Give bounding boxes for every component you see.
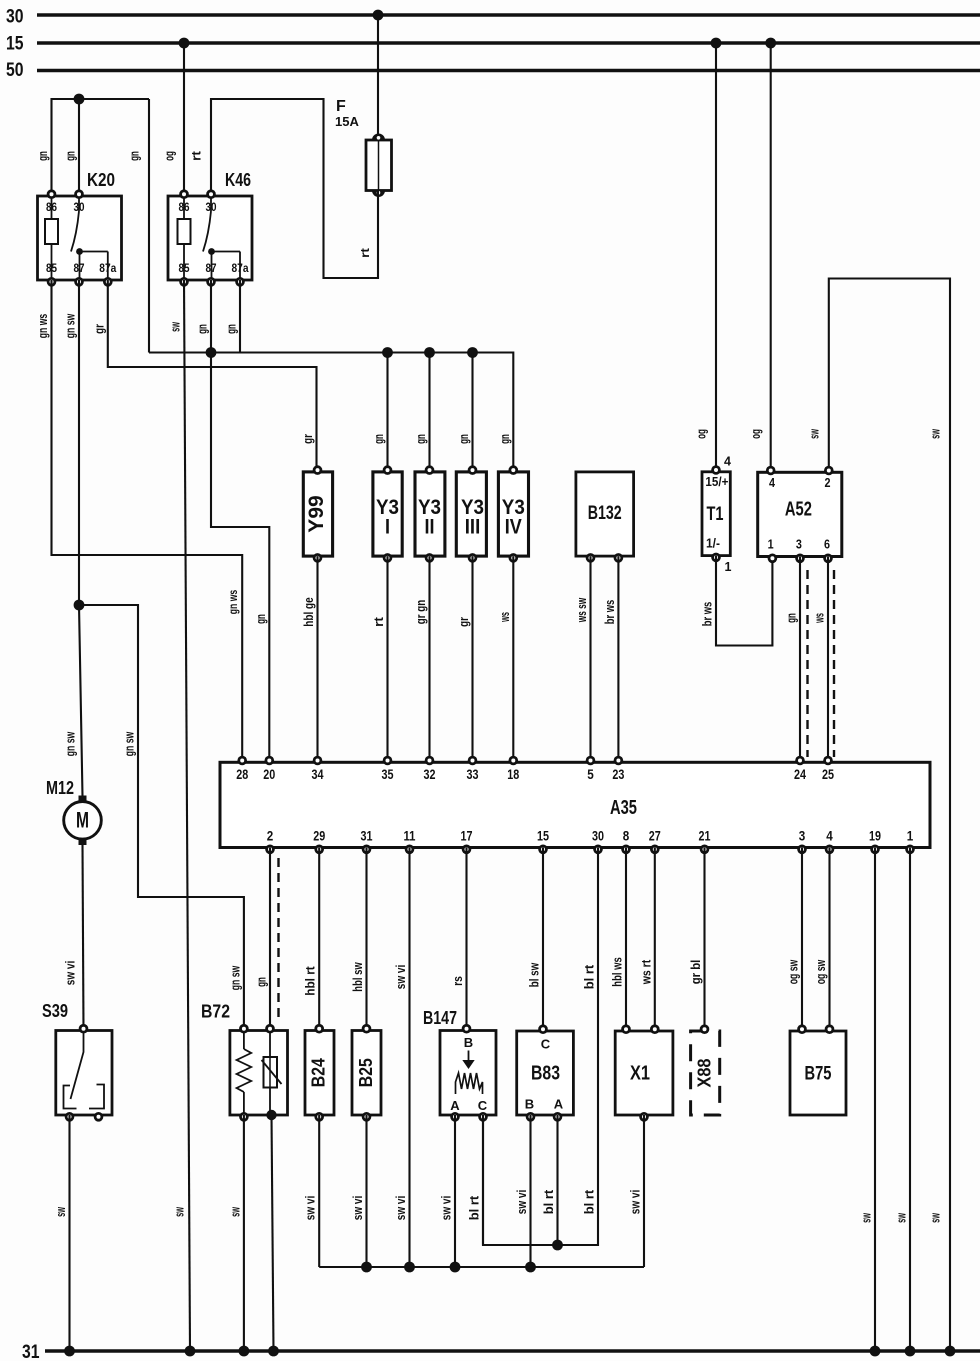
svg-text:ws: ws [497, 612, 512, 622]
wire sw vi M12 to S39 [83, 845, 84, 1031]
wire sw vi B83 B to ground rail [529, 1115, 531, 1267]
svg-text:gn sw: gn sw [227, 965, 242, 990]
junction B25 rail [361, 1262, 372, 1273]
ground rail wire y=1267 [319, 1266, 644, 1268]
sensor B132 [576, 472, 634, 563]
junction bus15 T1 [711, 38, 722, 49]
svg-text:15/+: 15/+ [705, 475, 728, 489]
wire rt from fuse to relay K46 terminal 30 [211, 99, 378, 278]
svg-text:3: 3 [799, 828, 806, 844]
svg-text:rt: rt [360, 248, 372, 258]
A35 bottom pin 2 [265, 828, 275, 855]
svg-text:gn: gn [127, 151, 142, 161]
svg-text:gn: gn [224, 324, 239, 334]
svg-text:gr: gr [91, 324, 106, 334]
svg-text:bl sw: bl sw [527, 962, 542, 987]
wire gn A52 pin3 to A35 pin 24 [799, 557, 801, 763]
svg-text:31: 31 [22, 1342, 40, 1361]
svg-text:1: 1 [725, 560, 732, 574]
connector X88 (dashed) [691, 1024, 720, 1115]
svg-text:23: 23 [612, 766, 624, 782]
A35 bottom pin 31 [361, 828, 373, 855]
valve Y3 III [456, 465, 486, 562]
control unit A35 [220, 762, 930, 847]
wire gn to Y3 III [471, 353, 473, 473]
svg-text:B83: B83 [531, 1063, 560, 1085]
A35 bottom pin 21 [699, 828, 711, 855]
wire gn A35 pin2 to B72 [269, 848, 271, 1031]
svg-text:34: 34 [312, 766, 324, 782]
svg-text:gn sw: gn sw [63, 313, 78, 338]
svg-text:33: 33 [467, 766, 479, 782]
svg-text:15A: 15A [335, 114, 359, 129]
svg-text:21: 21 [699, 828, 711, 844]
junction gn node Y3 II [424, 347, 435, 358]
A35 top pin 25 [822, 756, 834, 782]
svg-text:B132: B132 [588, 503, 622, 524]
junction K46 87 on gn node [206, 347, 217, 358]
svg-text:gn: gn [254, 977, 269, 987]
wire og sw A35 pin4 to B75 [828, 848, 830, 1031]
svg-text:C: C [541, 1037, 551, 1052]
svg-text:gn: gn [413, 434, 428, 444]
wire og bus 15 to T1 pin 4 [715, 43, 717, 472]
junction B72 right bus31 [268, 1346, 279, 1357]
valve Y3 II [415, 465, 445, 562]
svg-text:T1: T1 [707, 504, 724, 525]
svg-text:20: 20 [263, 766, 275, 782]
switch S39 [42, 1001, 112, 1122]
svg-text:B: B [464, 1035, 473, 1050]
svg-text:24: 24 [794, 766, 806, 782]
A35 top pin 5 [586, 756, 596, 782]
sensor B25 [352, 1024, 381, 1122]
svg-text:gn ws: gn ws [35, 314, 50, 339]
wire gn from K46 87 to A35 pin 20 [211, 280, 269, 762]
junction B147 A rail [450, 1262, 461, 1273]
svg-text:2: 2 [267, 828, 274, 844]
svg-text:hbl rt: hbl rt [303, 966, 318, 996]
wire hbl rt A35 pin29 to B24 [318, 848, 320, 1031]
A35 bottom pin 29 [313, 828, 325, 855]
junction sw wire on bus 31 [185, 1346, 196, 1357]
svg-text:sw vi: sw vi [63, 961, 78, 986]
wire sw vi X1 to ground rail [643, 1115, 645, 1267]
wire from bus 30 to fuse F [377, 15, 379, 140]
svg-text:15: 15 [537, 828, 549, 844]
A35 top pin 23 [612, 756, 624, 782]
potentiometer B147 [423, 1008, 496, 1122]
A35 top pin 18 [507, 756, 519, 782]
A35 bottom pin 30 [592, 828, 604, 855]
A35 bottom pin 1 [905, 828, 915, 855]
svg-text:B24: B24 [309, 1058, 329, 1087]
svg-text:gn: gn [195, 324, 210, 334]
svg-text:8: 8 [623, 828, 630, 844]
svg-text:gn sw: gn sw [63, 731, 78, 756]
A35 top pin 32 [424, 756, 436, 782]
svg-text:32: 32 [424, 766, 436, 782]
svg-text:sw vi: sw vi [628, 1190, 643, 1215]
A35 bottom pin 11 [404, 828, 416, 855]
svg-text:ws: ws [812, 613, 827, 623]
junction above K20 [74, 94, 85, 105]
svg-text:sw vi: sw vi [350, 1196, 365, 1221]
svg-text:rt: rt [189, 150, 204, 160]
relay K46 [168, 170, 252, 287]
svg-text:X1: X1 [630, 1063, 650, 1085]
svg-text:6: 6 [824, 538, 830, 552]
svg-text:27: 27 [649, 828, 661, 844]
A35 bottom pin 15 [537, 828, 549, 855]
svg-text:11: 11 [404, 828, 416, 844]
svg-text:gn: gn [497, 434, 512, 444]
svg-text:gr: gr [456, 617, 471, 627]
svg-text:sw: sw [928, 429, 943, 439]
shield dashed line at pin 25 wire [833, 570, 835, 757]
svg-text:B: B [525, 1097, 534, 1112]
svg-text:ws rt: ws rt [638, 959, 653, 985]
A35 bottom pin 19 [869, 828, 881, 855]
junction on bus 15 at og wire [179, 38, 190, 49]
svg-text:28: 28 [236, 766, 248, 782]
svg-text:1: 1 [768, 538, 774, 552]
svg-text:gn: gn [35, 151, 50, 161]
bus 30 (battery +) [6, 7, 980, 28]
A35 top pin 20 [263, 756, 275, 782]
svg-text:bl rt: bl rt [541, 1189, 556, 1214]
wire sw vi A35 pin11 to ground rail [408, 848, 410, 1268]
svg-text:sw: sw [53, 1207, 68, 1217]
A35 bottom pin 8 [621, 828, 631, 855]
wire sw S39 to bus 31 [68, 1115, 70, 1351]
svg-text:II: II [425, 516, 435, 539]
svg-text:S39: S39 [42, 1001, 68, 1021]
valve Y3 I [373, 465, 402, 562]
junction gn node Y3 I [382, 347, 393, 358]
wire ws A52 pin6 to A35 pin 25 [827, 557, 829, 763]
wire br ws B132 to A35 pin 23 [617, 556, 619, 762]
svg-text:gn sw: gn sw [122, 731, 137, 756]
wire gr Y3 III to A35 pin 33 [471, 556, 473, 762]
svg-text:bl rt: bl rt [582, 964, 597, 989]
wire ws sw B132 to A35 pin 5 [589, 556, 591, 762]
wire gr gn Y3 II to A35 pin 32 [428, 556, 430, 762]
svg-text:og sw: og sw [786, 959, 801, 984]
wire rt Y3 I to A35 pin 35 [386, 556, 388, 762]
wire gn from K20 86 to node above [52, 99, 150, 196]
svg-text:ws sw: ws sw [574, 597, 589, 623]
svg-text:og: og [694, 429, 709, 439]
svg-text:4: 4 [724, 455, 731, 469]
svg-text:gn: gn [456, 434, 471, 444]
svg-text:A35: A35 [610, 797, 637, 819]
sensor B83 [517, 1024, 574, 1121]
svg-text:30: 30 [6, 7, 24, 28]
svg-text:25: 25 [822, 766, 834, 782]
svg-text:X88: X88 [695, 1059, 715, 1088]
svg-text:K46: K46 [225, 170, 251, 190]
wire gn node to Y3 valves [149, 353, 513, 473]
wire gn from K46 87a to gn node [239, 280, 241, 353]
svg-text:gr: gr [300, 434, 315, 444]
svg-text:III: III [465, 516, 481, 539]
svg-text:gn: gn [784, 613, 799, 623]
svg-text:og sw: og sw [813, 959, 828, 984]
svg-text:sw vi: sw vi [393, 1196, 408, 1221]
junction B83 B rail [525, 1262, 536, 1273]
svg-text:IV: IV [505, 516, 522, 539]
svg-text:bl rt: bl rt [467, 1195, 482, 1220]
junction on gn sw wire [74, 600, 85, 611]
wire sw vi B25 to ground rail [365, 1115, 367, 1267]
svg-text:hbl ws: hbl ws [610, 957, 625, 986]
wire hbl ge Y99 to A35 pin 34 [316, 556, 318, 762]
svg-text:gr gn: gr gn [413, 600, 428, 625]
wire og from bus 15 to K46 86 [183, 43, 185, 196]
svg-text:sw vi: sw vi [393, 965, 408, 990]
svg-text:og: og [748, 429, 763, 439]
svg-text:29: 29 [313, 828, 325, 844]
wire gn K20 30 [78, 99, 80, 196]
wire sw A35 pin1 to bus 31 [909, 848, 911, 1352]
svg-text:K20: K20 [87, 170, 115, 190]
wire bl rt A35 pin30 to B147 C [483, 848, 598, 1246]
wire bl rt B147 C to pin30 wire [482, 1115, 484, 1245]
svg-text:19: 19 [869, 828, 881, 844]
svg-text:1: 1 [907, 828, 914, 844]
shield dashed line at B72 wire [277, 858, 279, 1017]
A35 bottom pin 27 [649, 828, 661, 855]
wire B72 right to bus 31 [272, 1115, 274, 1351]
wire sw B72 left to bus 31 [243, 1115, 245, 1351]
svg-text:M12: M12 [46, 778, 74, 798]
svg-text:rt: rt [371, 616, 386, 626]
svg-text:4: 4 [769, 476, 775, 490]
svg-text:2: 2 [825, 476, 831, 490]
svg-text:M: M [76, 808, 89, 833]
svg-text:sw vi: sw vi [439, 1196, 454, 1221]
svg-text:Y99: Y99 [305, 495, 328, 532]
svg-text:sw vi: sw vi [303, 1196, 318, 1221]
svg-text:sw: sw [168, 322, 183, 332]
control unit A52 [758, 466, 842, 563]
wire bl sw A35 pin15 to B83 [542, 848, 544, 1031]
wire bl rt B83 A to pin30 wire [556, 1115, 558, 1245]
svg-text:35: 35 [382, 766, 394, 782]
junction S39 bus31 [64, 1346, 75, 1357]
wire ws Y3 IV to A35 pin 18 [512, 556, 514, 762]
bus 50 (starter) [6, 60, 980, 81]
svg-text:hbl sw: hbl sw [350, 962, 365, 992]
svg-text:I: I [385, 516, 390, 539]
wire ws rt A35 pin27 to X1 [654, 848, 656, 1031]
svg-text:br ws: br ws [602, 600, 617, 625]
svg-text:sw: sw [928, 1213, 943, 1223]
sensor B72 [201, 1002, 288, 1122]
junction bus15 A52 [765, 38, 776, 49]
svg-text:5: 5 [587, 766, 594, 782]
wire gn to Y3 II [428, 353, 430, 473]
A35 bottom pin 3 [797, 828, 807, 855]
relay K20 [38, 170, 122, 287]
wire gn ws from K20 85 to A35 pin 28 [52, 280, 243, 762]
svg-text:og: og [162, 151, 177, 161]
A35 top pin 28 [236, 756, 248, 782]
svg-text:sw: sw [859, 1213, 874, 1223]
svg-text:15: 15 [6, 34, 24, 55]
svg-text:C: C [478, 1098, 488, 1113]
bus 15 (ignition) [6, 34, 980, 55]
svg-text:B25: B25 [356, 1058, 376, 1087]
sensor B24 [305, 1024, 334, 1122]
svg-text:sw vi: sw vi [514, 1190, 529, 1215]
svg-text:br ws: br ws [700, 602, 715, 627]
wire gn to Y3 I [386, 353, 388, 473]
svg-text:A52: A52 [785, 499, 812, 521]
junction pin19 bus31 [870, 1346, 881, 1357]
wire sw from K46 85 to bus 31 [184, 280, 190, 1351]
svg-text:50: 50 [6, 60, 24, 81]
svg-text:17: 17 [461, 828, 473, 844]
A35 top pin 33 [467, 756, 479, 782]
svg-text:bl rt: bl rt [582, 1189, 597, 1214]
svg-text:sw: sw [227, 1207, 242, 1217]
svg-text:30: 30 [592, 828, 604, 844]
svg-text:18: 18 [507, 766, 519, 782]
A35 top pin 34 [312, 756, 324, 782]
svg-text:4: 4 [826, 828, 833, 844]
svg-text:rs: rs [450, 976, 465, 986]
junction B72 left bus31 [239, 1346, 250, 1357]
svg-text:F: F [336, 98, 346, 115]
connector X1 [615, 1024, 673, 1121]
junction pin11 rail [404, 1262, 415, 1273]
svg-text:1/-: 1/- [706, 537, 720, 551]
wire gn sw branch to B72 left [79, 605, 244, 1031]
A35 top pin 35 [382, 756, 394, 782]
junction on bus 30 [373, 10, 384, 21]
wire hbl sw A35 pin31 to B25 [365, 848, 367, 1031]
wire gn sw from K20 87 down to motor M12 [79, 280, 83, 796]
wire og sw A35 pin3 to B75 [801, 848, 803, 1031]
wire sw vi B147 A to ground rail [454, 1115, 456, 1267]
svg-text:sw: sw [172, 1207, 187, 1217]
valve Y99 [303, 465, 332, 562]
A35 bottom pin 4 [825, 828, 835, 855]
svg-text:B75: B75 [805, 1064, 832, 1085]
svg-text:gn: gn [253, 614, 268, 624]
svg-text:A: A [554, 1097, 564, 1112]
wire gn down right of K20 [148, 99, 150, 353]
svg-text:B147: B147 [423, 1008, 457, 1028]
valve Y3 IV [498, 465, 528, 562]
junction B83 A on bl rt wire [552, 1240, 563, 1251]
svg-text:A: A [450, 1098, 460, 1113]
junction sw wire bus31 right [945, 1346, 956, 1357]
wire hbl ws A35 pin8 to X1 [625, 848, 627, 1031]
junction gn node Y3 III [467, 347, 478, 358]
wire gr bl A35 pin21 to X88 [703, 848, 705, 1031]
svg-text:gr bl: gr bl [688, 960, 703, 985]
wire og bus15 to A52 pin4 [770, 43, 772, 472]
svg-text:sw: sw [894, 1213, 909, 1223]
svg-text:gn: gn [371, 434, 386, 444]
wire gr from K20 87a to Y99 [108, 280, 317, 472]
fuse F 15A [335, 98, 392, 197]
wire br ws T1 pin1 to A52 pin1 [716, 556, 772, 646]
svg-text:gn: gn [63, 151, 78, 161]
bus 31 (ground) [22, 1342, 980, 1361]
A35 top pin 24 [794, 756, 806, 782]
svg-text:31: 31 [361, 828, 373, 844]
svg-text:sw: sw [806, 429, 821, 439]
wire sw vi B24 to ground rail [318, 1115, 320, 1267]
A35 bottom pin 17 [461, 828, 473, 855]
wire sw A35 pin19 to bus 31 [874, 848, 876, 1352]
junction pin1 bus31 [905, 1346, 916, 1357]
svg-text:hbl ge: hbl ge [301, 597, 316, 626]
svg-text:gn ws: gn ws [228, 590, 240, 615]
shield dashed line at pin 24 wire [806, 570, 808, 757]
svg-text:B72: B72 [201, 1002, 230, 1022]
sensor B75 [790, 1024, 846, 1115]
wire rs A35 pin17 to B147 [465, 848, 467, 1031]
wire sw A52 pin2 to bus 31 far right [829, 279, 950, 1352]
ignition coil T1 [702, 455, 732, 575]
svg-text:3: 3 [796, 538, 802, 552]
motor M12 [46, 778, 101, 845]
